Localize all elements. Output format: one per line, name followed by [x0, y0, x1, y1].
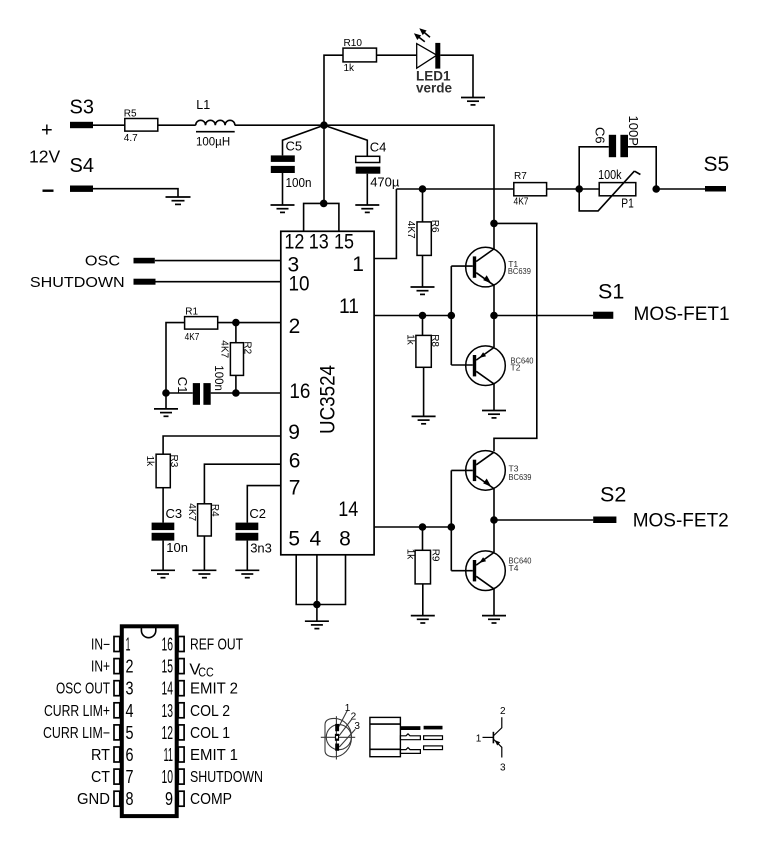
wire node down to IC top bracket: [323, 125, 325, 203]
wire OSC to pin 3: [155, 260, 281, 262]
node base tie S2: [448, 523, 456, 531]
svg-text:14: 14: [162, 679, 174, 699]
resistor R4: [186, 503, 220, 570]
svg-text:4: 4: [310, 528, 322, 551]
pin 14 right: [162, 679, 239, 699]
svg-text:11: 11: [339, 295, 359, 318]
svg-text:470µ: 470µ: [370, 175, 400, 190]
label MOS-FET2: [633, 511, 729, 532]
resistor R5: [124, 109, 158, 145]
svg-text:CC: CC: [198, 665, 214, 680]
node IC top junction: [320, 200, 328, 208]
svg-text:R2: R2: [241, 341, 252, 354]
pin 5 left: [43, 723, 134, 743]
ground T4: [482, 616, 506, 623]
wire pin1 to rail: [374, 189, 396, 259]
wire pin 9 to R3: [163, 436, 281, 454]
svg-text:COL 1: COL 1: [190, 725, 230, 742]
wire node to C4: [324, 125, 367, 156]
pin 3 left: [56, 679, 134, 699]
wire pin 14 rail: [374, 526, 451, 528]
svg-text:3: 3: [354, 721, 360, 732]
node C1 left: [162, 389, 170, 397]
svg-text:OSC: OSC: [85, 253, 120, 270]
wire pin 7 to C2: [247, 486, 280, 523]
svg-text:RT: RT: [91, 747, 110, 764]
svg-text:7: 7: [289, 477, 301, 500]
pin 12 right: [162, 723, 231, 743]
svg-text:1k: 1k: [344, 63, 356, 74]
svg-text:1k: 1k: [404, 549, 415, 561]
label SHUTDOWN: [30, 274, 125, 291]
IC pinout body: [122, 626, 177, 816]
svg-text:5: 5: [288, 528, 300, 551]
wire to pin 16: [236, 392, 281, 394]
svg-text:11: 11: [164, 745, 174, 765]
svg-text:4: 4: [126, 701, 134, 721]
svg-text:5: 5: [126, 723, 134, 743]
svg-text:C3: C3: [166, 506, 183, 521]
svg-text:CT: CT: [91, 769, 110, 786]
transistor symbol pinout: [476, 706, 506, 774]
capacitor C4: [356, 139, 400, 189]
svg-text:4K7: 4K7: [514, 197, 529, 208]
resistor R10: [343, 38, 377, 74]
resistor R3: [144, 454, 179, 522]
svg-text:15: 15: [334, 231, 354, 254]
terminal OSC: [134, 258, 155, 264]
svg-text:9: 9: [288, 421, 300, 444]
svg-text:BC639: BC639: [508, 266, 531, 276]
pin 7 left: [91, 767, 134, 787]
svg-text:R4: R4: [209, 504, 220, 517]
ground C4: [355, 205, 379, 212]
wire LED1 to ground: [440, 55, 473, 97]
wire rail pin1 to R7: [396, 188, 513, 190]
svg-text:S3: S3: [70, 97, 94, 119]
svg-text:MOS-FET1: MOS-FET1: [634, 304, 730, 325]
svg-text:REF OUT: REF OUT: [190, 637, 243, 654]
svg-text:4K7: 4K7: [186, 503, 197, 521]
node P1 right: [652, 185, 660, 193]
wire L1 to node: [235, 124, 324, 126]
node R8 top: [419, 312, 427, 320]
transistor T2 BC640: [466, 346, 534, 386]
label 12V: [29, 146, 60, 166]
svg-text:UC3524: UC3524: [317, 365, 340, 434]
svg-text:CURR LIM−: CURR LIM−: [43, 725, 110, 742]
svg-text:S5: S5: [704, 153, 730, 176]
svg-text:8: 8: [126, 789, 134, 809]
svg-text:2: 2: [126, 657, 134, 677]
wire T1 collector: [493, 223, 495, 249]
capacitor C3: [152, 506, 188, 571]
ground S4: [166, 197, 191, 204]
wire pins 5 4 8 to ground bus: [296, 555, 345, 605]
pin 15 right: [162, 657, 214, 680]
svg-text:IN−: IN−: [91, 637, 110, 654]
ground R9: [411, 616, 435, 623]
svg-text:8: 8: [339, 528, 351, 551]
transistor T4 BC640: [466, 551, 532, 591]
svg-text:100P: 100P: [626, 116, 641, 146]
svg-text:R1: R1: [185, 306, 198, 317]
svg-text:3: 3: [500, 763, 506, 774]
wire S1 rail: [494, 315, 593, 317]
terminal S1: [593, 312, 613, 319]
wire C1 to ground: [165, 393, 167, 409]
wire T4 collector to ground: [493, 589, 495, 616]
terminal S4: [70, 186, 93, 192]
svg-text:14: 14: [338, 498, 358, 521]
svg-text:C4: C4: [370, 139, 387, 154]
svg-text:CURR LIM+: CURR LIM+: [44, 703, 110, 720]
svg-text:9: 9: [165, 789, 173, 809]
wire main rail right: [324, 125, 494, 223]
svg-text:100k: 100k: [598, 167, 622, 182]
svg-text:S1: S1: [598, 280, 624, 304]
ground C5: [271, 205, 295, 212]
svg-text:R8: R8: [429, 334, 440, 347]
capacitor C6: [579, 116, 656, 190]
wire T2 emitter from S1: [493, 316, 495, 348]
ground C2: [235, 570, 259, 577]
TO-92 package bottom view: [321, 703, 361, 760]
node R9 top: [419, 523, 427, 531]
terminal S1 label: [598, 280, 624, 304]
svg-text:+: +: [41, 120, 53, 142]
svg-text:4K7: 4K7: [219, 340, 230, 358]
node R1 R2 pin2: [232, 319, 240, 327]
wire T3 base tie: [451, 470, 473, 570]
ground LED1: [461, 98, 485, 105]
svg-text:R7: R7: [514, 171, 527, 182]
svg-text:T4: T4: [509, 563, 519, 573]
svg-text:SHUTDOWN: SHUTDOWN: [30, 274, 125, 291]
pin 6 left: [91, 745, 134, 765]
svg-text:100n: 100n: [286, 175, 312, 190]
package side view: [370, 717, 443, 756]
svg-text:7: 7: [126, 767, 134, 787]
potentiometer P1: [579, 167, 640, 211]
svg-text:C1: C1: [175, 377, 190, 394]
pin 8 left: [77, 789, 134, 809]
label OSC: [85, 253, 120, 270]
svg-text:3: 3: [126, 679, 134, 699]
svg-text:13: 13: [162, 701, 174, 721]
pin 11 right: [164, 745, 239, 765]
ground R8: [412, 416, 436, 423]
resistor R1: [166, 306, 236, 393]
op-amp U1 UC3524 body: [281, 231, 374, 555]
ground C1: [154, 409, 178, 416]
svg-text:C2: C2: [249, 506, 266, 521]
capacitor C1: [166, 365, 236, 405]
svg-text:12V: 12V: [29, 146, 60, 166]
wire R10 to LED1: [377, 54, 417, 56]
svg-text:100n: 100n: [212, 365, 224, 391]
wire link T1 to T3 collector: [494, 223, 537, 451]
wire S3 to R5: [93, 124, 125, 126]
pin 4 left: [44, 701, 134, 721]
svg-text:COMP: COMP: [190, 791, 232, 808]
terminal S2: [593, 517, 616, 524]
resistor R2: [219, 323, 253, 393]
svg-text:verde: verde: [416, 80, 453, 95]
transistor T1 BC639: [466, 247, 531, 287]
wire SHUTDOWN to pin 10: [156, 281, 281, 283]
svg-text:C5: C5: [286, 139, 303, 154]
transistor T3 BC639: [466, 451, 532, 491]
svg-text:T2: T2: [511, 363, 521, 373]
svg-text:1: 1: [352, 253, 364, 276]
node C1 right: [232, 389, 240, 397]
svg-text:6: 6: [126, 745, 134, 765]
svg-text:13: 13: [309, 231, 329, 254]
svg-text:SHUTDOWN: SHUTDOWN: [190, 769, 263, 786]
pin 16 right: [162, 635, 244, 655]
svg-text:3n3: 3n3: [250, 541, 272, 556]
node T3 emitter S2: [490, 516, 498, 524]
node R6 top: [419, 185, 427, 193]
svg-text:16: 16: [289, 380, 310, 403]
terminal S2 label: [600, 483, 626, 507]
resistor R6: [405, 189, 440, 287]
node 12V T1 collector: [490, 220, 498, 228]
wire R7 to P1: [547, 188, 600, 190]
label +: [41, 120, 53, 142]
svg-text:MOS-FET2: MOS-FET2: [633, 511, 729, 532]
wire bus to ground: [316, 605, 318, 622]
svg-text:4K7: 4K7: [405, 221, 416, 239]
resistor R7: [514, 171, 547, 208]
label minus: [43, 190, 54, 192]
wire R5 to L1: [158, 124, 196, 126]
svg-text:2: 2: [289, 315, 301, 338]
LED LED1: [414, 28, 453, 95]
pin 10 right: [162, 767, 264, 787]
svg-text:S4: S4: [70, 155, 94, 177]
svg-text:16: 16: [162, 635, 174, 655]
svg-text:R5: R5: [124, 109, 137, 120]
svg-text:R3: R3: [168, 455, 179, 468]
node main junction: [320, 121, 328, 129]
pin 1 left: [91, 635, 131, 655]
terminal S4 label: [70, 155, 94, 177]
node base tie S1: [448, 312, 456, 320]
svg-text:P1: P1: [621, 196, 634, 211]
wire pin 6 to R4: [204, 464, 280, 504]
svg-text:10n: 10n: [166, 540, 188, 555]
svg-text:OSC OUT: OSC OUT: [56, 681, 110, 698]
wire node to C5: [283, 125, 325, 155]
wire C5 to ground: [282, 173, 284, 205]
terminal SHUTDOWN: [134, 279, 156, 285]
svg-text:BC639: BC639: [509, 472, 532, 482]
resistor R8: [405, 316, 440, 417]
pin 2 left: [91, 657, 134, 677]
svg-text:COL 2: COL 2: [190, 703, 230, 720]
wire bracket pins 13 15: [304, 203, 339, 231]
pin 13 right: [162, 701, 231, 721]
label MOS-FET1: [634, 304, 730, 325]
ground C3: [151, 570, 175, 577]
resistor R9: [404, 527, 440, 616]
node P1 left: [575, 185, 583, 193]
svg-text:1k: 1k: [405, 334, 416, 346]
svg-text:C6: C6: [592, 127, 607, 144]
wire T1 base tie: [451, 266, 473, 365]
wire S4 to ground: [93, 189, 178, 197]
svg-text:1: 1: [476, 734, 482, 745]
capacitor C2: [236, 506, 272, 571]
wire to S5: [656, 188, 705, 190]
capacitor C5: [271, 139, 312, 191]
svg-text:R9: R9: [429, 549, 440, 562]
svg-text:R10: R10: [344, 38, 363, 49]
wire node to R10: [324, 55, 343, 125]
svg-text:EMIT 2: EMIT 2: [190, 681, 238, 698]
wire pin 11 rail: [374, 315, 451, 317]
ground T2: [482, 411, 506, 418]
wire S2 rail: [494, 519, 593, 521]
ground R6: [411, 287, 435, 294]
svg-text:R6: R6: [429, 220, 440, 233]
svg-text:10: 10: [289, 273, 310, 296]
wire T4 emitter from S2: [493, 520, 495, 552]
svg-text:EMIT 1: EMIT 1: [190, 747, 238, 764]
svg-text:100µH: 100µH: [196, 137, 230, 149]
svg-text:12: 12: [284, 231, 304, 254]
wire T2 collector to ground: [493, 384, 495, 411]
terminal S3: [70, 122, 93, 128]
svg-text:4K7: 4K7: [185, 332, 200, 343]
node T1 emitter S1: [490, 312, 498, 320]
inductor L1: [196, 98, 235, 148]
wire T1 emitter: [493, 286, 495, 316]
terminal S5: [705, 186, 726, 192]
terminal S3 label: [70, 97, 94, 119]
wire to pin 2: [236, 322, 281, 324]
pin 9 right: [165, 789, 232, 809]
node ground bus: [313, 601, 321, 609]
svg-text:IN+: IN+: [91, 659, 110, 676]
wire C4 to ground: [366, 174, 368, 205]
svg-text:12: 12: [162, 723, 174, 743]
ground R4: [192, 570, 216, 577]
svg-text:GND: GND: [77, 791, 110, 808]
ground IC: [305, 621, 329, 628]
wire T3 emitter: [493, 489, 495, 520]
svg-text:2: 2: [500, 706, 506, 717]
terminal S5 label: [704, 153, 730, 176]
svg-text:4.7: 4.7: [124, 133, 138, 144]
svg-text:L1: L1: [196, 98, 210, 112]
svg-text:6: 6: [289, 449, 301, 472]
svg-text:1k: 1k: [144, 456, 155, 468]
svg-text:S2: S2: [600, 483, 626, 507]
svg-text:15: 15: [162, 657, 174, 677]
svg-text:1: 1: [126, 635, 131, 655]
svg-text:10: 10: [162, 767, 174, 787]
